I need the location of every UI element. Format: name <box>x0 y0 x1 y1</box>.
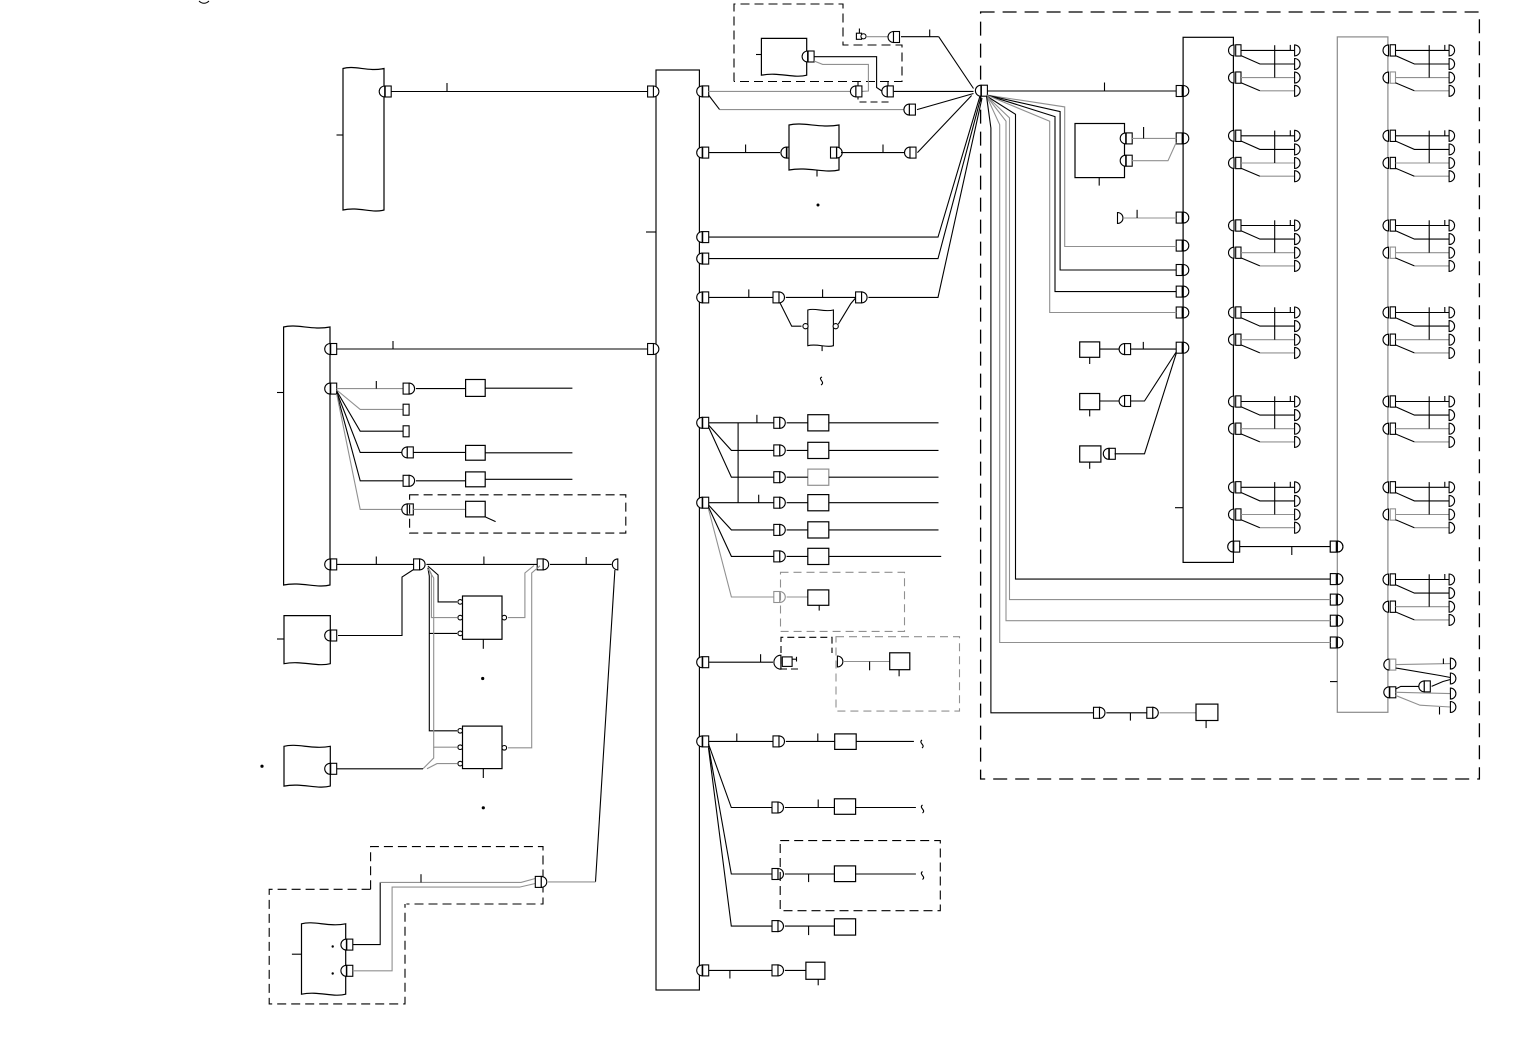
U1 output wire (gray) <box>508 566 534 618</box>
wire b1 (gray) (ignition group L2) <box>1241 162 1295 164</box>
terminal a2 (injector group R3) <box>1449 234 1455 245</box>
terminal B3 on block B <box>325 559 330 570</box>
wire to injector row A7 (gray) <box>787 596 808 598</box>
terminal b1 (injector group R4) <box>1449 334 1455 345</box>
terminal link left <box>1228 541 1233 552</box>
coil connector a (ignition group L5) <box>1229 396 1235 407</box>
coil connector a (injector group R5) <box>1383 396 1388 407</box>
inline connector pair P2 <box>537 559 543 570</box>
sub-harness 1 left terminal 2 <box>1176 133 1182 144</box>
main junction connector <box>975 85 981 96</box>
inline connector pair M1 <box>1119 344 1125 355</box>
harness right terminal 9 <box>697 736 703 747</box>
dot pin F1 <box>332 945 334 947</box>
plug tick vertical (injector group R4) <box>1428 307 1430 339</box>
tick on wire <box>1129 713 1131 721</box>
relay/injector row A6 <box>808 548 829 564</box>
tick on main wire <box>1104 83 1106 92</box>
plug tick short (injector group R1) <box>1444 45 1446 51</box>
plug tick vertical (ignition group L4) <box>1274 307 1276 339</box>
block G (relay block, partial) <box>761 38 806 76</box>
terminal a1 (injector group R4) <box>1449 307 1455 318</box>
terminal b2 (group R8) <box>1450 702 1456 713</box>
wire a1 (injector group R4) <box>1396 312 1450 314</box>
branch 6 diagonal (gray) <box>337 394 402 509</box>
wire to relay R3 <box>416 480 466 482</box>
wire row C1 <box>709 740 774 742</box>
wire M1 to pair <box>1100 348 1120 350</box>
fan wire 4 (gray) <box>987 95 1177 313</box>
wire row A1 <box>709 422 774 424</box>
diagonal to row C2 <box>709 744 773 808</box>
terminal b1 (ignition group L6) <box>1295 509 1301 520</box>
wire b to inline pair (group R8) <box>1396 686 1419 689</box>
terminal b1 (ignition group L3) <box>1295 247 1301 258</box>
plug tick vertical (ignition group L5) <box>1274 396 1276 428</box>
wire to relay R4 (gray) <box>413 508 465 510</box>
terminal D row B1 <box>837 656 843 667</box>
coil connector b (ignition group L4) <box>1229 334 1235 345</box>
coil connector a (ignition group L2) <box>1229 130 1235 141</box>
tick on wire <box>929 30 931 37</box>
wire from block E to node <box>337 768 423 770</box>
diagonal to row A6 <box>709 507 774 556</box>
wire from P1 to U1 pin 1 <box>428 566 457 602</box>
coil connector b (injector group R5) <box>1383 423 1388 434</box>
wire from component row A4 <box>829 502 939 504</box>
fan wire 7 (gray) <box>987 96 1331 621</box>
plug tick vertical (injector group R5) <box>1428 396 1430 428</box>
terminal b2 (injector group R7) <box>1449 614 1455 625</box>
relay/injector row A2 <box>808 442 829 458</box>
wire a2 diagonal (ignition group L1) <box>1241 56 1295 64</box>
wire b2 diagonal (ignition group L2) <box>1241 168 1260 176</box>
wire B3 segment 1 <box>337 563 414 565</box>
component M3 <box>1080 446 1101 462</box>
tick on row A1 <box>756 415 758 423</box>
terminal a2 (injector group R2) <box>1449 144 1455 155</box>
component row C4 <box>834 919 855 935</box>
wire b1 (gray) (injector group R1) <box>1396 77 1450 79</box>
tick on row C1 b <box>817 733 819 741</box>
wire a2 diagonal (injector group R5) <box>1396 407 1450 415</box>
terminal a1 (injector group R1) <box>1449 45 1455 56</box>
tick on sub-harness 2 left edge <box>1330 681 1337 683</box>
terminal b1 (ignition group L5) <box>1295 423 1301 434</box>
tick on wire <box>882 145 884 153</box>
U2 output pin <box>502 746 507 751</box>
inline connector pair branch 1 <box>403 383 409 394</box>
single terminal D <box>1118 213 1124 224</box>
terminal b2 (injector group R3) <box>1449 260 1455 271</box>
wire a2 diagonal (injector group R2) <box>1396 141 1450 149</box>
wire a2 diagonal (group R8) <box>1396 668 1451 678</box>
coil connector a (injector group R4) <box>1383 307 1388 318</box>
harness right terminal 6 <box>697 417 703 428</box>
terminal a2 (ignition group L4) <box>1295 321 1301 332</box>
inline connector pair branch 6 <box>402 504 408 515</box>
sub-harness 1 left terminal 8 <box>1176 342 1182 353</box>
U1 pin 2 <box>458 615 463 620</box>
relay R1 <box>466 380 486 397</box>
wire row 6 segment 2 <box>786 296 856 298</box>
terminal b2 (ignition group L2) <box>1295 171 1301 182</box>
coil connector a (ignition group L3) <box>1229 220 1235 231</box>
tick on F1 wire <box>420 874 422 882</box>
terminal F1 <box>341 939 347 950</box>
dashed box row C3 <box>780 841 940 911</box>
wire b1 (gray) (injector group R5) <box>1396 428 1450 430</box>
harness right terminal 7 <box>697 497 703 508</box>
inline connector pair row C1 <box>773 736 779 747</box>
wire from P1 to U1 pin 3 / U2 pin 1 <box>428 568 457 731</box>
terminal a2 (injector group R6) <box>1449 495 1455 506</box>
wire row D1 <box>709 969 773 971</box>
wire b2 diagonal (group R8) <box>1396 696 1451 708</box>
wire pair to terminal a2 (group R8) <box>1432 680 1451 687</box>
sub-harness block 1 <box>1183 37 1233 562</box>
U1 pin 1 <box>458 600 463 605</box>
coil connector b (injector group R3) <box>1383 247 1389 258</box>
stub on block G left <box>756 54 761 56</box>
wire to pair row A2 <box>787 449 808 451</box>
block I left pin <box>803 324 808 329</box>
coil connector b (injector group R1) <box>1383 72 1388 83</box>
wire b2 diagonal (ignition group L4) <box>1241 345 1260 353</box>
tick on wire B3 <box>375 557 377 565</box>
wire to pair row A6 <box>787 555 808 557</box>
terminal a1 (ignition group L4) <box>1295 307 1301 318</box>
terminal on block E <box>325 763 330 774</box>
gray wire row B1 <box>843 661 890 663</box>
black wire from block G via corners <box>814 57 882 91</box>
wire to pair row A3 <box>787 476 808 478</box>
tick on wire K1 <box>1143 127 1145 138</box>
terminal b2 (ignition group L1) <box>1295 85 1301 96</box>
inline connector pair bottom 1 <box>1094 707 1100 718</box>
wire row 4 to junction <box>709 96 981 237</box>
sub-harness 2 left terminal 3 <box>1330 594 1336 605</box>
wire a1 (ignition group L2) <box>1241 135 1295 137</box>
inline connector pair row 6 right <box>856 292 862 303</box>
wire row 3 to junction <box>917 96 971 153</box>
tick on row 6 segment 2 <box>822 289 824 297</box>
wire block H to pair <box>841 152 905 154</box>
tick below M1 <box>1089 357 1091 364</box>
wire B3 segment 3 <box>550 563 612 565</box>
dot left of block E <box>260 765 263 768</box>
inline connector pair row A2 <box>774 445 780 456</box>
wire a2 diagonal (injector group R6) <box>1396 493 1450 501</box>
dashed box upper (harness section) <box>371 847 543 904</box>
wire b2 diagonal (ignition group L1) <box>1241 83 1260 91</box>
tick on harness left edge <box>646 231 656 233</box>
wire a1 (injector group R3) <box>1396 225 1450 227</box>
relay/injector row A4 <box>808 495 829 511</box>
tick on row C4 <box>808 926 810 935</box>
terminal a2 (ignition group L2) <box>1295 144 1301 155</box>
tick below M2 <box>1089 410 1091 417</box>
wire pair to corner <box>901 36 939 38</box>
relay R4 <box>466 501 486 517</box>
plug tick short (ignition group L3) <box>1289 220 1291 226</box>
wire link down to block E node <box>423 747 434 769</box>
U2 output wire (gray) <box>508 566 540 748</box>
tick on row B1 <box>869 662 871 671</box>
block E (partial block) <box>284 745 330 787</box>
gray dashed box row A7 <box>781 572 905 631</box>
wire a2 diagonal (injector group R1) <box>1396 56 1450 64</box>
tick on row C1 <box>736 733 738 741</box>
wire b1 (gray) (ignition group L3) <box>1241 252 1295 254</box>
stub from relay R4 <box>485 517 495 522</box>
U2 pin 1 <box>458 729 463 734</box>
terminal a1 (ignition group L1) <box>1295 45 1301 56</box>
sub-harness 1 left terminal 4 <box>1176 240 1182 251</box>
component row C1 <box>835 734 857 750</box>
plug tick vertical (ignition group L3) <box>1274 220 1276 252</box>
inline connector pair row A1 <box>774 417 780 428</box>
coil connector a (injector group R3) <box>1383 220 1388 231</box>
block B (partial connector block, left middle) <box>284 326 330 586</box>
wire row 5 to junction <box>709 97 982 259</box>
component K <box>1075 124 1125 178</box>
wire a1 gray (group R8) <box>1396 664 1451 665</box>
terminal a2 (ignition group L3) <box>1295 234 1301 245</box>
wire from component C2 <box>856 807 916 809</box>
block I (partial sensor block) <box>808 309 834 346</box>
component M1 <box>1080 342 1100 357</box>
plug tick vertical (injector group R6) <box>1428 482 1430 514</box>
diagonal to row A7 (gray) <box>709 509 774 597</box>
sheet mark <box>199 1 209 3</box>
vertical link wire <box>737 423 739 503</box>
wire b2 diagonal (injector group R2) <box>1396 168 1415 176</box>
end squiggle row C3 <box>921 872 923 880</box>
coil connector a (injector group R6) <box>1383 482 1388 493</box>
terminal a1 (ignition group L3) <box>1295 220 1301 231</box>
inline pair (group R8) <box>1419 681 1425 692</box>
inline connector pair branch 5 <box>403 475 409 486</box>
terminal on block A <box>379 86 385 97</box>
wire b1 (gray) (ignition group L6) <box>1241 514 1295 516</box>
tick on wire <box>1136 210 1138 218</box>
terminal b1 (ignition group L2) <box>1295 158 1301 169</box>
tick below component N <box>1205 721 1207 729</box>
tick below component B1 <box>898 670 900 677</box>
plug tick short (injector group R4) <box>1444 307 1446 313</box>
wire B3 segment 2 <box>426 563 537 565</box>
inline connector pair row A6 <box>774 551 780 562</box>
end squiggle row C1 <box>921 740 923 748</box>
inline connector pair row A4 <box>774 497 780 508</box>
terminal link right <box>1330 541 1336 552</box>
sub-harness 1 left terminal 3 <box>1176 212 1182 223</box>
inline connector pair row A7 <box>774 592 780 603</box>
tick below component D1 <box>817 979 819 985</box>
tick on wire B3 segment 2 <box>483 557 485 565</box>
terminal b2 (ignition group L5) <box>1295 436 1301 447</box>
wire a1 (injector group R1) <box>1396 49 1450 51</box>
sub-harness 2 left terminal 5 <box>1330 637 1336 648</box>
wire b2 diagonal (injector group R4) <box>1396 345 1415 353</box>
relay/injector row A5 <box>808 522 829 538</box>
diagonal wire down to junction <box>939 37 974 89</box>
coil connector b (injector group R7) <box>1383 601 1388 612</box>
coil connector b (ignition group L5) <box>1229 423 1235 434</box>
wire fusible link to pair (gray) <box>866 36 888 38</box>
terminal a1 (injector group R2) <box>1449 130 1455 141</box>
block H (partial pass-through) <box>789 124 839 171</box>
wire a1 (ignition group L1) <box>1241 49 1295 51</box>
branch 2 diagonal (gray) <box>337 390 403 409</box>
wire row A4 <box>709 502 774 504</box>
terminal pair attached M3 <box>1103 448 1108 459</box>
inline connector pair row C3 <box>772 869 778 880</box>
tick on row C3 <box>808 874 810 882</box>
terminal C row B1 <box>774 655 781 669</box>
break squiggle below block I <box>820 377 822 385</box>
wire pair to component C2 <box>785 807 835 809</box>
coil connector b (injector group R6) <box>1383 509 1388 520</box>
sub-harness 1 left terminal 1 <box>1176 86 1182 97</box>
tick below M3 <box>1089 462 1091 469</box>
U2 pin 3 <box>458 761 463 766</box>
dashed box lower (harness section) <box>269 889 405 1004</box>
wire b2 diagonal (ignition group L5) <box>1241 434 1260 442</box>
harness right terminal 10 <box>697 965 703 976</box>
wire K1 to sub-harness (gray) <box>1132 137 1176 139</box>
wire terminal D to sub-harness (gray) <box>1123 217 1176 219</box>
wire a1 (ignition group L5) <box>1241 401 1295 403</box>
coil connector b (ignition group L6) <box>1229 509 1235 520</box>
tick on link wire <box>1291 547 1293 555</box>
wire pair to component C4 <box>785 925 835 927</box>
terminal a2 (ignition group L5) <box>1295 410 1301 421</box>
plug tick short (injector group R7) <box>1444 574 1446 580</box>
dashed box (engine room relay box) <box>734 4 902 82</box>
terminal a2 (injector group R4) <box>1449 321 1455 332</box>
wire a2 diagonal (ignition group L3) <box>1241 231 1295 239</box>
stub below block H <box>816 170 818 177</box>
main harness connector block <box>656 70 699 990</box>
tick below injector A7 <box>818 605 820 610</box>
stub on block A left edge <box>337 134 344 136</box>
wire pair to component D1 <box>785 969 806 971</box>
sub-harness 1 left terminal 7 <box>1176 307 1182 318</box>
wire a2 diagonal (injector group R3) <box>1396 231 1450 239</box>
sub-harness 1 left terminal 5 <box>1176 265 1182 276</box>
plug tick short (injector group R2) <box>1444 130 1446 136</box>
terminal B2 on block B <box>325 383 330 394</box>
terminal b2 (injector group R5) <box>1449 436 1455 447</box>
coil connector a (ignition group L6) <box>1229 482 1235 493</box>
plug tick short (ignition group L1) <box>1289 45 1291 51</box>
plug tick short (injector group R3) <box>1444 220 1446 226</box>
wire a1 (ignition group L3) <box>1241 225 1295 227</box>
wire a2 diagonal (ignition group L4) <box>1241 318 1295 326</box>
harness right terminal 4 <box>697 253 703 264</box>
plug tick short (ignition group L6) <box>1289 482 1291 488</box>
dashed box around relay R4 <box>410 495 626 533</box>
plug tick short (injector group R5) <box>1444 396 1446 402</box>
block A (partial connector block, top left) <box>343 67 384 211</box>
coil connector a (injector group R2) <box>1383 130 1388 141</box>
terminal b2 (ignition group L4) <box>1295 347 1301 358</box>
wire a1 (injector group R2) <box>1396 135 1450 137</box>
terminal b1 (ignition group L4) <box>1295 334 1301 345</box>
terminal a1 (injector group R3) <box>1449 220 1455 231</box>
tick on wire B1 <box>392 341 394 349</box>
tick on sub-harness 1 left edge <box>1175 507 1183 509</box>
wire to relay R2 <box>413 451 465 453</box>
wire pair B to junction <box>894 90 974 92</box>
fan wire 6 (gray) <box>987 96 1331 600</box>
wire from component row A2 <box>829 449 939 451</box>
inline connector pair row D1 <box>772 965 778 976</box>
long diagonal wire down to lower-left connector <box>596 570 615 882</box>
link wire <box>1239 546 1330 548</box>
plug tick vertical (injector group R1) <box>1428 45 1430 77</box>
inline connector pair top <box>888 32 894 43</box>
main gray wire harness to pair A <box>709 90 851 92</box>
wire b2 diagonal (injector group R3) <box>1396 258 1415 266</box>
diagonal to block I pin <box>780 303 802 326</box>
wire a2 diagonal (injector group R7) <box>1396 585 1450 593</box>
terminal a2 (injector group R7) <box>1449 588 1455 599</box>
inline connector pair row C2 <box>772 802 778 813</box>
tick below U1 <box>482 639 484 649</box>
inline connector pair row 3 <box>905 147 911 158</box>
relay/injector row A1 <box>808 415 829 431</box>
terminal b1 (injector group R3) <box>1449 247 1455 258</box>
terminal a1 (ignition group L6) <box>1295 482 1301 493</box>
component row C3 <box>834 866 855 882</box>
tick on wire <box>745 145 747 153</box>
terminal b2 (ignition group L3) <box>1295 260 1301 271</box>
tick on row A4 <box>758 495 760 503</box>
wire b2 diagonal (injector group R6) <box>1396 520 1415 528</box>
stub on block C left edge <box>277 638 284 640</box>
component row C2 <box>834 799 855 815</box>
wire b2 diagonal (ignition group L6) <box>1241 520 1260 528</box>
wire K2 to sub-harness (gray) <box>1132 143 1176 161</box>
branch 3 diagonal <box>337 391 403 431</box>
coil connector b (ignition group L2) <box>1229 158 1235 169</box>
terminal a2 (ignition group L6) <box>1295 495 1301 506</box>
inline connector pair lower-left <box>535 876 541 887</box>
plug tick short (injector group R6) <box>1444 482 1446 488</box>
plug tick vertical (injector group R3) <box>1428 220 1430 252</box>
plug tick short (ignition group L4) <box>1289 307 1291 313</box>
tick on row C2 <box>817 800 819 808</box>
U1 output pin <box>502 615 507 620</box>
terminal F2 <box>341 965 347 976</box>
wire from relay R3 <box>485 478 572 480</box>
wire M3 diagonal to sub-harness <box>1115 354 1177 454</box>
component K terminal 2 <box>1120 155 1126 166</box>
wire to pair row A1 <box>787 422 808 424</box>
wire from block A to main harness connector <box>391 91 648 93</box>
gray wire from block G via corners <box>814 61 868 91</box>
dashed box around diode <box>781 637 832 669</box>
wire from relay R1 <box>485 387 572 389</box>
wire a1 (ignition group L4) <box>1241 312 1295 314</box>
terminal B1 on block B <box>325 344 330 355</box>
wire b1 (gray) (injector group R6) <box>1396 514 1450 516</box>
coil connector b (group R8) <box>1384 687 1389 698</box>
fan wire 5 <box>987 96 1331 579</box>
